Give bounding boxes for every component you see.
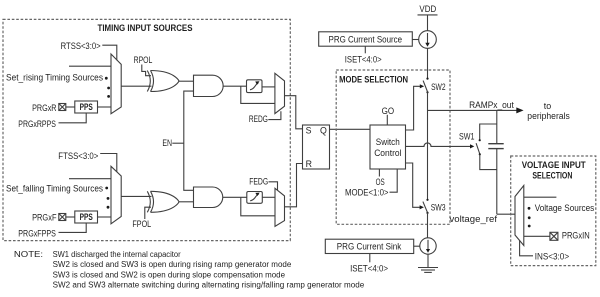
wire sink box to I2: [414, 245, 420, 247]
mux M5 voltage input selector: [515, 186, 524, 246]
svg-text:PRGxR: PRGxR: [32, 103, 56, 113]
pad symbol PRGxR: [59, 104, 66, 111]
svg-text:PRG Current Source: PRG Current Source: [329, 34, 403, 44]
switch SW3: [423, 199, 429, 214]
node Voltage Sources: [528, 207, 531, 228]
and gate A1: [194, 75, 224, 96]
pad symbol PRGxF: [59, 214, 66, 221]
wire mux M4 to latch R: [285, 164, 303, 207]
svg-text:SW2 is closed and SW3 is open: SW2 is closed and SW3 is open during ris…: [53, 260, 292, 269]
capacitor C1: [488, 144, 503, 149]
wire RAMPx_out: [428, 109, 518, 111]
wire Q to Switch Control: [330, 128, 371, 130]
svg-text:TIMING INPUT SOURCES: TIMING INPUT SOURCES: [98, 23, 193, 33]
svg-text:Set_falling Timing Sources: Set_falling Timing Sources: [6, 184, 104, 194]
wire rail SW3 to sink: [427, 213, 429, 238]
svg-text:PRG Current Sink: PRG Current Sink: [337, 242, 402, 252]
svg-text:VOLTAGE INPUT: VOLTAGE INPUT: [522, 160, 586, 170]
wire input stub upper: [69, 65, 111, 67]
svg-text:PPS: PPS: [80, 102, 93, 112]
wire RTSS to mux M1: [102, 45, 117, 60]
svg-text:OS: OS: [376, 177, 385, 187]
wire SW3 control: [406, 163, 421, 207]
svg-text:RAMPx_out: RAMPx_out: [469, 100, 514, 110]
node ISET<4:0> bottom: [369, 254, 371, 263]
svg-text:FTSS<3:0>: FTSS<3:0>: [58, 151, 98, 161]
mux M2 rising edge selector: [275, 73, 285, 113]
ground: [418, 268, 438, 273]
wire rail I1 to SW2: [427, 48, 429, 78]
wire PRGxIN input: [524, 235, 550, 237]
svg-text:RTSS<3:0>: RTSS<3:0>: [61, 41, 101, 51]
wire SW1 control with hop: [406, 143, 471, 147]
svg-text:MODE<1:0>: MODE<1:0>: [345, 187, 389, 197]
wire AND1 out: [223, 85, 246, 87]
wire mux M3 out to XOR2: [121, 195, 151, 197]
xor gate X2: [147, 191, 179, 212]
edge detector FEDG box: [247, 192, 262, 204]
svg-text:PRGxRPPS: PRGxRPPS: [18, 119, 56, 129]
svg-text:INS<3:0>: INS<3:0>: [535, 252, 569, 262]
svg-text:PRGxF: PRGxF: [32, 213, 57, 223]
wire pad to PPS: [66, 106, 75, 108]
svg-text:R: R: [306, 159, 312, 169]
current sink I2: [420, 238, 436, 254]
node ISET<4:0> top: [364, 46, 366, 53]
wire AND2 out: [223, 196, 247, 198]
wire EN stub: [172, 142, 184, 144]
wire XOR2 to AND2: [179, 201, 194, 203]
wire GO stub: [386, 115, 388, 125]
wire voltage sources input: [524, 196, 557, 198]
xor gate X1: [147, 71, 179, 92]
latch U1 SR: [303, 125, 330, 169]
svg-text:REDG: REDG: [249, 114, 268, 124]
wire REDG box to mux M2: [262, 86, 275, 88]
svg-text:voltage_ref: voltage_ref: [450, 214, 498, 224]
wire cap branch down: [496, 110, 498, 143]
svg-text:Set_rising Timing Sources: Set_rising Timing Sources: [6, 73, 104, 83]
svg-text:Switch: Switch: [376, 137, 400, 147]
wire cap bottom to voltage_ref: [496, 149, 498, 215]
switch SW2: [423, 78, 429, 94]
wire INS select: [520, 240, 533, 255]
junction input ellipsis dots: [105, 77, 110, 98]
wire voltage_ref: [497, 213, 515, 215]
wire SW2 control: [406, 86, 421, 130]
svg-text:SW3: SW3: [431, 203, 446, 213]
svg-text:SW3 is closed and SW2 is open: SW3 is closed and SW2 is open during slo…: [53, 270, 286, 279]
svg-text:Control: Control: [374, 148, 401, 158]
wire I2 to ground: [427, 254, 429, 267]
wire PRGxFPPS to PPS: [59, 223, 87, 232]
switch SW1 branch: [476, 124, 497, 170]
mux M3 falling input selector: [111, 166, 121, 224]
dashed box TIMING INPUT SOURCES: [3, 19, 290, 240]
wire bypass lower: [241, 197, 275, 216]
svg-text:MODE SELECTION: MODE SELECTION: [339, 74, 408, 84]
edge detector REDG box: [247, 80, 263, 93]
wire input stub lower: [69, 178, 111, 180]
wire FTSS to mux M3: [100, 154, 117, 173]
svg-text:Q: Q: [320, 125, 327, 135]
wire XOR1 to AND1: [179, 80, 194, 82]
wire FEDG box to mux M4: [262, 196, 275, 198]
svg-text:PPS: PPS: [80, 212, 93, 222]
current source I1: [419, 31, 437, 49]
junction input ellipsis dots lower: [105, 187, 109, 209]
svg-text:PRGxFPPS: PRGxFPPS: [18, 229, 56, 239]
wire bypass upper: [241, 86, 275, 103]
svg-text:ISET<4:0>: ISET<4:0>: [350, 264, 388, 274]
wire FPOL to XOR2: [145, 207, 151, 219]
wire PPS to mux M1: [98, 106, 112, 108]
svg-text:ISET<4:0>: ISET<4:0>: [345, 54, 382, 64]
pad symbol PRGxIN: [550, 232, 558, 240]
wire VDD to current source: [427, 15, 429, 31]
wire mux M1 out to XOR1: [121, 85, 151, 87]
wire PRGxRPPS to PPS: [59, 113, 87, 123]
svg-text:SW1: SW1: [459, 131, 475, 141]
svg-text:S: S: [306, 125, 312, 135]
wire rail SW2 to SW3: [427, 92, 429, 199]
svg-text:SW2: SW2: [431, 82, 446, 92]
wire mux M2 to latch S: [285, 96, 303, 129]
block PRG Current Source: [319, 32, 413, 46]
svg-text:SELECTION: SELECTION: [532, 170, 572, 180]
svg-text:SW2 and SW3 alternate switchin: SW2 and SW3 alternate switching during a…: [53, 281, 365, 290]
svg-text:NOTE:: NOTE:: [14, 250, 43, 259]
svg-text:SW1 discharged the internal ca: SW1 discharged the internal capacitor: [53, 250, 181, 259]
svg-text:RPOL: RPOL: [134, 55, 153, 65]
wire FEDG select: [269, 182, 278, 191]
svg-text:to: to: [544, 101, 552, 111]
dashed box MODE SELECTION: [336, 70, 450, 224]
wire MODE to Switch Control: [390, 169, 398, 192]
wire REDG select: [268, 111, 281, 119]
svg-text:GO: GO: [382, 106, 395, 116]
svg-text:FPOL: FPOL: [132, 219, 151, 229]
mux M4 falling edge selector: [275, 188, 285, 226]
block Switch Control: [370, 125, 406, 169]
block PRG Current Sink: [325, 239, 413, 253]
mux M1 rising input selector: [111, 54, 121, 114]
wire OS stub: [378, 169, 380, 177]
svg-text:EN: EN: [162, 138, 172, 148]
wire EN vertical: [184, 91, 194, 190]
block PPS falling: [75, 211, 98, 223]
wire RPOL to XOR1: [142, 65, 151, 76]
wire PPS to mux M3: [98, 216, 112, 218]
block PPS rising: [75, 101, 98, 113]
svg-text:PRGxIN: PRGxIN: [562, 231, 590, 241]
wire source box to I1: [412, 39, 418, 41]
svg-text:FEDG: FEDG: [249, 176, 268, 186]
and gate A2: [194, 187, 223, 208]
svg-text:peripherals: peripherals: [527, 111, 570, 121]
wire pad to PPS falling: [66, 216, 75, 218]
svg-text:Voltage Sources: Voltage Sources: [535, 203, 595, 213]
svg-text:VDD: VDD: [419, 4, 436, 14]
dashed box VOLTAGE INPUT SELECTION: [511, 156, 596, 266]
